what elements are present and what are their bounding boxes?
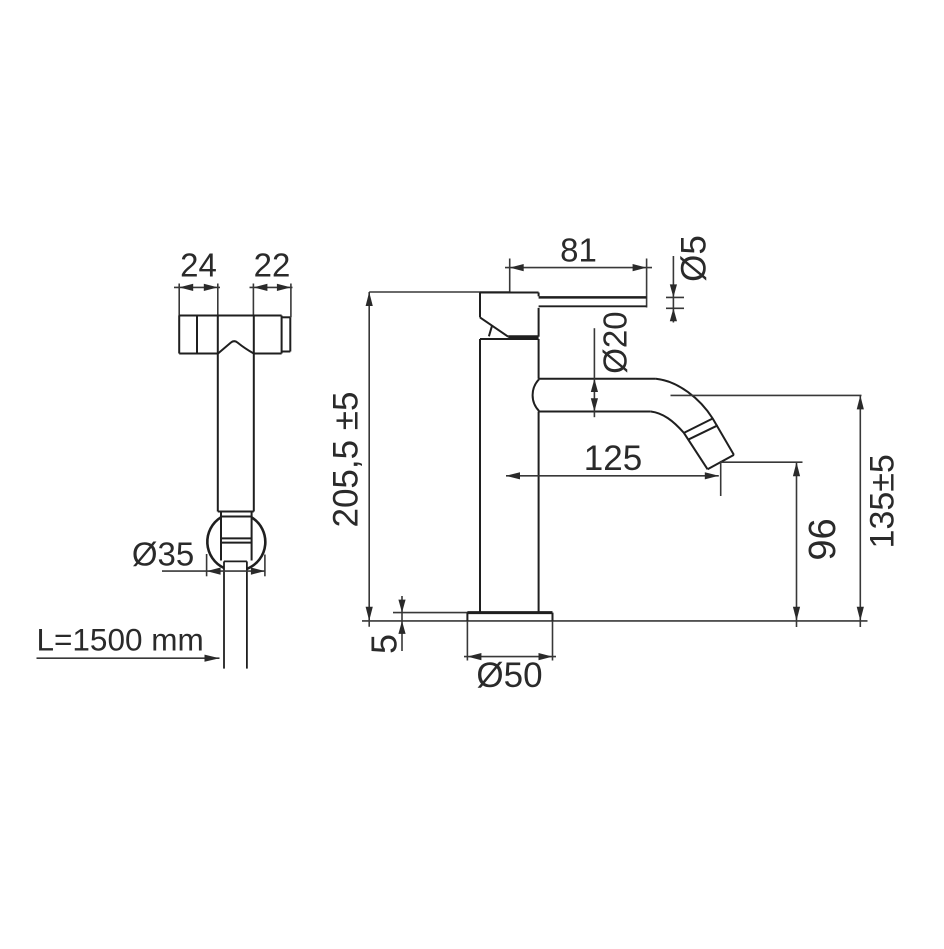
sprayer handle — [218, 316, 254, 512]
L=1500 arrowhead — [205, 655, 220, 662]
dimension 96 arrows — [793, 462, 800, 621]
body column — [480, 339, 539, 613]
svg-text:Ø35: Ø35 — [132, 536, 194, 573]
spout — [533, 379, 734, 470]
dimension 24 line — [174, 286, 220, 288]
L=1500 arrow line — [37, 657, 220, 659]
counter line — [362, 620, 868, 622]
svg-text:205,5 ±5: 205,5 ±5 — [327, 392, 366, 528]
dimension D20 text — [597, 311, 634, 373]
dimension D50 text — [476, 656, 542, 695]
spout tip reference line — [721, 461, 803, 463]
dimension 125 text — [584, 439, 642, 478]
dimension 22 line — [250, 286, 293, 288]
dimension 24 text — [180, 246, 217, 283]
dimension 24 arrows — [179, 284, 218, 291]
dimension 81 arrows — [510, 264, 647, 271]
dimension D20 arrows — [591, 379, 598, 412]
dimension 205,5 line — [368, 292, 370, 627]
dimension 205,5 text — [327, 392, 366, 528]
dimension 22 arrows — [253, 284, 291, 291]
dimension D50 ext lines — [467, 621, 552, 661]
dimension D5 arrows — [670, 284, 677, 321]
hose top line — [224, 560, 247, 562]
svg-text:Ø5: Ø5 — [675, 235, 714, 282]
dimension D35 sprayer text — [132, 536, 194, 573]
svg-text:L=1500 mm: L=1500 mm — [37, 621, 204, 657]
dimension 135 line — [859, 395, 861, 627]
dimension D50 arrows — [467, 653, 552, 660]
base flange — [467, 613, 552, 621]
svg-text:81: 81 — [560, 231, 597, 268]
svg-text:Ø20: Ø20 — [597, 311, 634, 373]
dimension 22 text — [254, 246, 291, 283]
ball joint mid lines — [221, 538, 252, 542]
dimension 205,5 arrows — [366, 292, 373, 621]
top reference line — [369, 291, 510, 293]
lever rod — [539, 297, 647, 306]
dimension 135 text — [864, 454, 902, 548]
extension lines for 24 and 22 — [179, 284, 291, 318]
sprayer neck — [221, 512, 252, 561]
dimension D35 sprayer line — [162, 570, 265, 572]
ball joint left arc — [207, 517, 224, 568]
dimension D5 text — [675, 235, 714, 282]
body seam — [480, 338, 539, 340]
dimension 125 ext line — [720, 461, 722, 496]
sprayer head body — [179, 316, 281, 354]
dimension 81 text — [560, 231, 597, 268]
svg-text:24: 24 — [180, 246, 217, 283]
dimension 81 line — [505, 267, 652, 269]
hose — [224, 561, 247, 668]
svg-text:125: 125 — [584, 439, 642, 478]
rod end / 81 right ext line — [646, 259, 648, 308]
dimension D35 sprayer ext lines — [207, 554, 265, 576]
dimension 96 line — [796, 462, 798, 627]
dimension 5 line — [401, 596, 403, 651]
lever cap bottom edge — [508, 335, 538, 338]
L=1500 mm text — [37, 621, 204, 657]
dimension 5 text — [364, 634, 405, 654]
sprayer handle junction chevron — [218, 341, 254, 353]
ball joint right arc — [247, 518, 265, 569]
dimension D20 line — [593, 328, 595, 417]
svg-text:96: 96 — [802, 518, 844, 560]
spout top reference line for 135 — [671, 394, 862, 396]
dimension 81 ext line left — [509, 259, 511, 293]
dimension D50 line — [464, 656, 556, 658]
dimension 5 arrows — [398, 600, 405, 634]
dimension 125 arrows — [506, 472, 719, 479]
dimension 125 line — [506, 475, 719, 477]
base top ext line — [393, 612, 480, 614]
svg-text:22: 22 — [254, 246, 291, 283]
dimension D35 sprayer arrows — [207, 568, 265, 575]
sprayer head end cap — [282, 317, 291, 351]
dimension D5 line — [666, 256, 684, 323]
dimension 96 text — [802, 518, 844, 560]
lever cap — [480, 293, 539, 337]
svg-text:135±5: 135±5 — [864, 454, 902, 548]
dimension 135 arrows — [857, 395, 864, 620]
svg-text:5: 5 — [364, 634, 405, 654]
svg-text:Ø50: Ø50 — [476, 656, 542, 695]
